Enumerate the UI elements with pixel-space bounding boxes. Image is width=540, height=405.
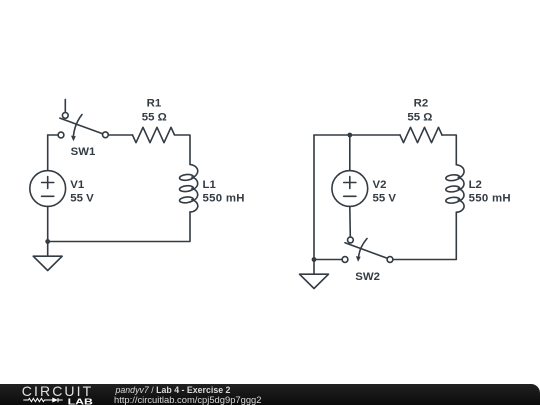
svg-text:550 mH: 550 mH (203, 193, 245, 205)
svg-text:55 V: 55 V (373, 193, 397, 205)
svg-text:L1: L1 (203, 179, 217, 191)
svg-text:V1: V1 (70, 179, 85, 191)
svg-text:SW2: SW2 (355, 271, 380, 283)
svg-text:R2: R2 (414, 98, 429, 110)
svg-text:LAB: LAB (68, 398, 94, 405)
svg-text:55 V: 55 V (70, 193, 94, 205)
svg-text:55 Ω: 55 Ω (407, 112, 432, 124)
svg-text:CIRCUIT: CIRCUIT (22, 384, 93, 399)
svg-text:V2: V2 (373, 179, 387, 191)
svg-text:L2: L2 (469, 179, 482, 191)
svg-text:550 mH: 550 mH (469, 193, 511, 205)
svg-text:SW1: SW1 (71, 146, 96, 158)
svg-text:55 Ω: 55 Ω (142, 112, 167, 124)
svg-text:R1: R1 (147, 98, 162, 110)
